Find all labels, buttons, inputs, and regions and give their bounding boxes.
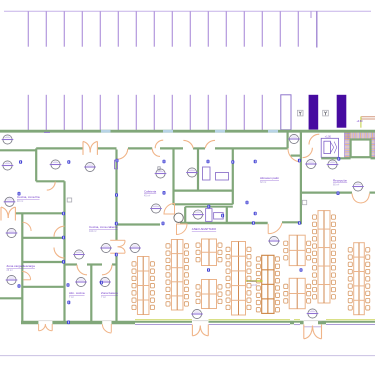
svg-text:7 m²: 7 m²	[101, 296, 106, 299]
svg-text:Alm. cocina: Alm. cocina	[69, 291, 85, 295]
svg-text:7 m²: 7 m²	[69, 296, 74, 299]
svg-text:Almacen patin: Almacen patin	[260, 176, 279, 180]
svg-text:26 m²: 26 m²	[7, 269, 13, 272]
svg-text:+0.00: +0.00	[251, 285, 258, 287]
svg-text:45 m²: 45 m²	[144, 195, 150, 198]
svg-text:Cocina, zona caliente: Cocina, zona caliente	[89, 225, 118, 229]
svg-text:32 m²: 32 m²	[260, 181, 266, 184]
svg-text:Cocina, zona fria: Cocina, zona fria	[17, 195, 40, 199]
svg-text:+0.60: +0.60	[357, 120, 364, 123]
svg-text:+1.00: +1.00	[325, 135, 332, 138]
svg-text:40 m²: 40 m²	[17, 200, 23, 203]
svg-text:60 m²: 60 m²	[333, 184, 339, 187]
svg-text:ASEO ADAPTADO: ASEO ADAPTADO	[192, 227, 217, 231]
svg-text:104 m²: 104 m²	[89, 230, 97, 233]
svg-text:Zona basura: Zona basura	[101, 291, 118, 295]
svg-text:Recepción: Recepción	[333, 179, 348, 183]
svg-text:Zona carga/descarga: Zona carga/descarga	[7, 264, 36, 268]
svg-text:e=xxxxxx: e=xxxxxx	[247, 281, 257, 283]
svg-text:Cafeteria: Cafeteria	[144, 190, 157, 194]
